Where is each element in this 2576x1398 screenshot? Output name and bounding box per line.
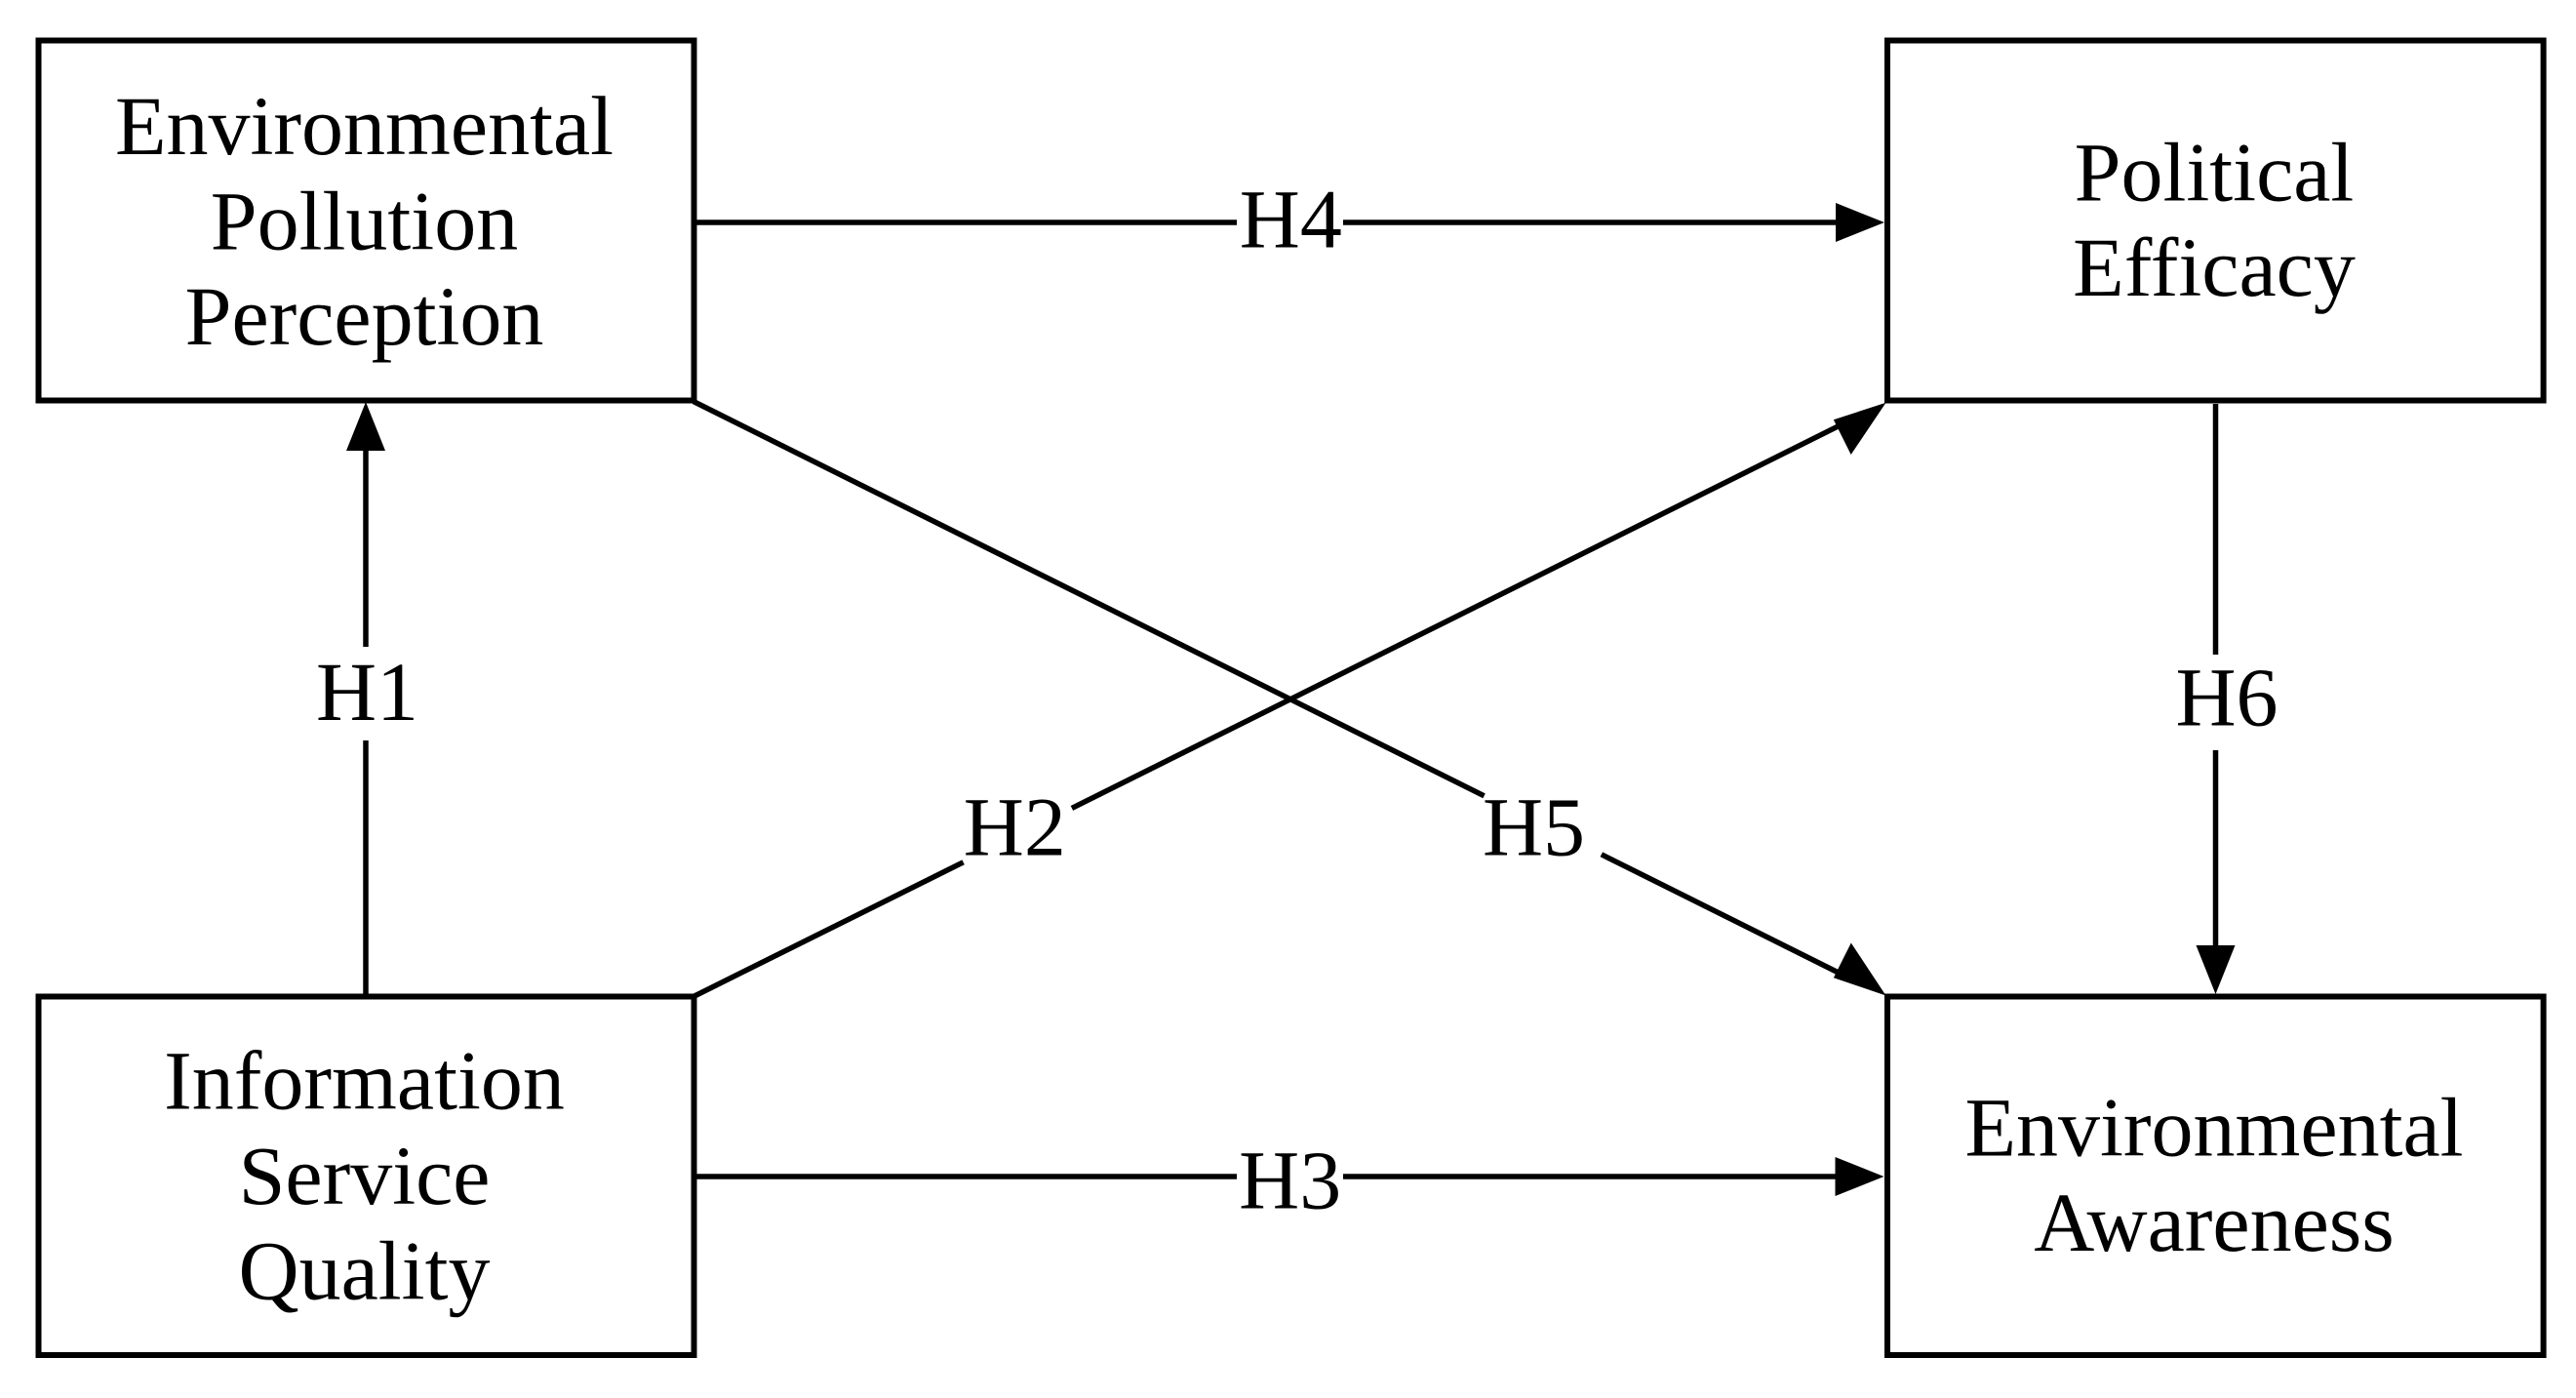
svg-text:Information: Information	[164, 1034, 565, 1128]
svg-text:Perception: Perception	[185, 269, 544, 363]
svg-text:Service: Service	[239, 1129, 491, 1222]
svg-text:Quality: Quality	[239, 1224, 491, 1318]
svg-text:Environmental: Environmental	[115, 79, 614, 173]
svg-text:H3: H3	[1239, 1134, 1341, 1227]
svg-text:Awareness: Awareness	[2034, 1176, 2394, 1269]
svg-text:Environmental: Environmental	[1964, 1080, 2463, 1174]
svg-text:H4: H4	[1240, 173, 1342, 266]
svg-text:H2: H2	[964, 780, 1066, 874]
svg-text:Pollution: Pollution	[211, 175, 518, 268]
svg-text:Efficacy: Efficacy	[2073, 220, 2356, 314]
svg-text:H1: H1	[316, 645, 418, 739]
svg-text:H6: H6	[2175, 651, 2278, 744]
svg-text:Political: Political	[2075, 125, 2355, 219]
svg-text:H5: H5	[1483, 780, 1585, 874]
